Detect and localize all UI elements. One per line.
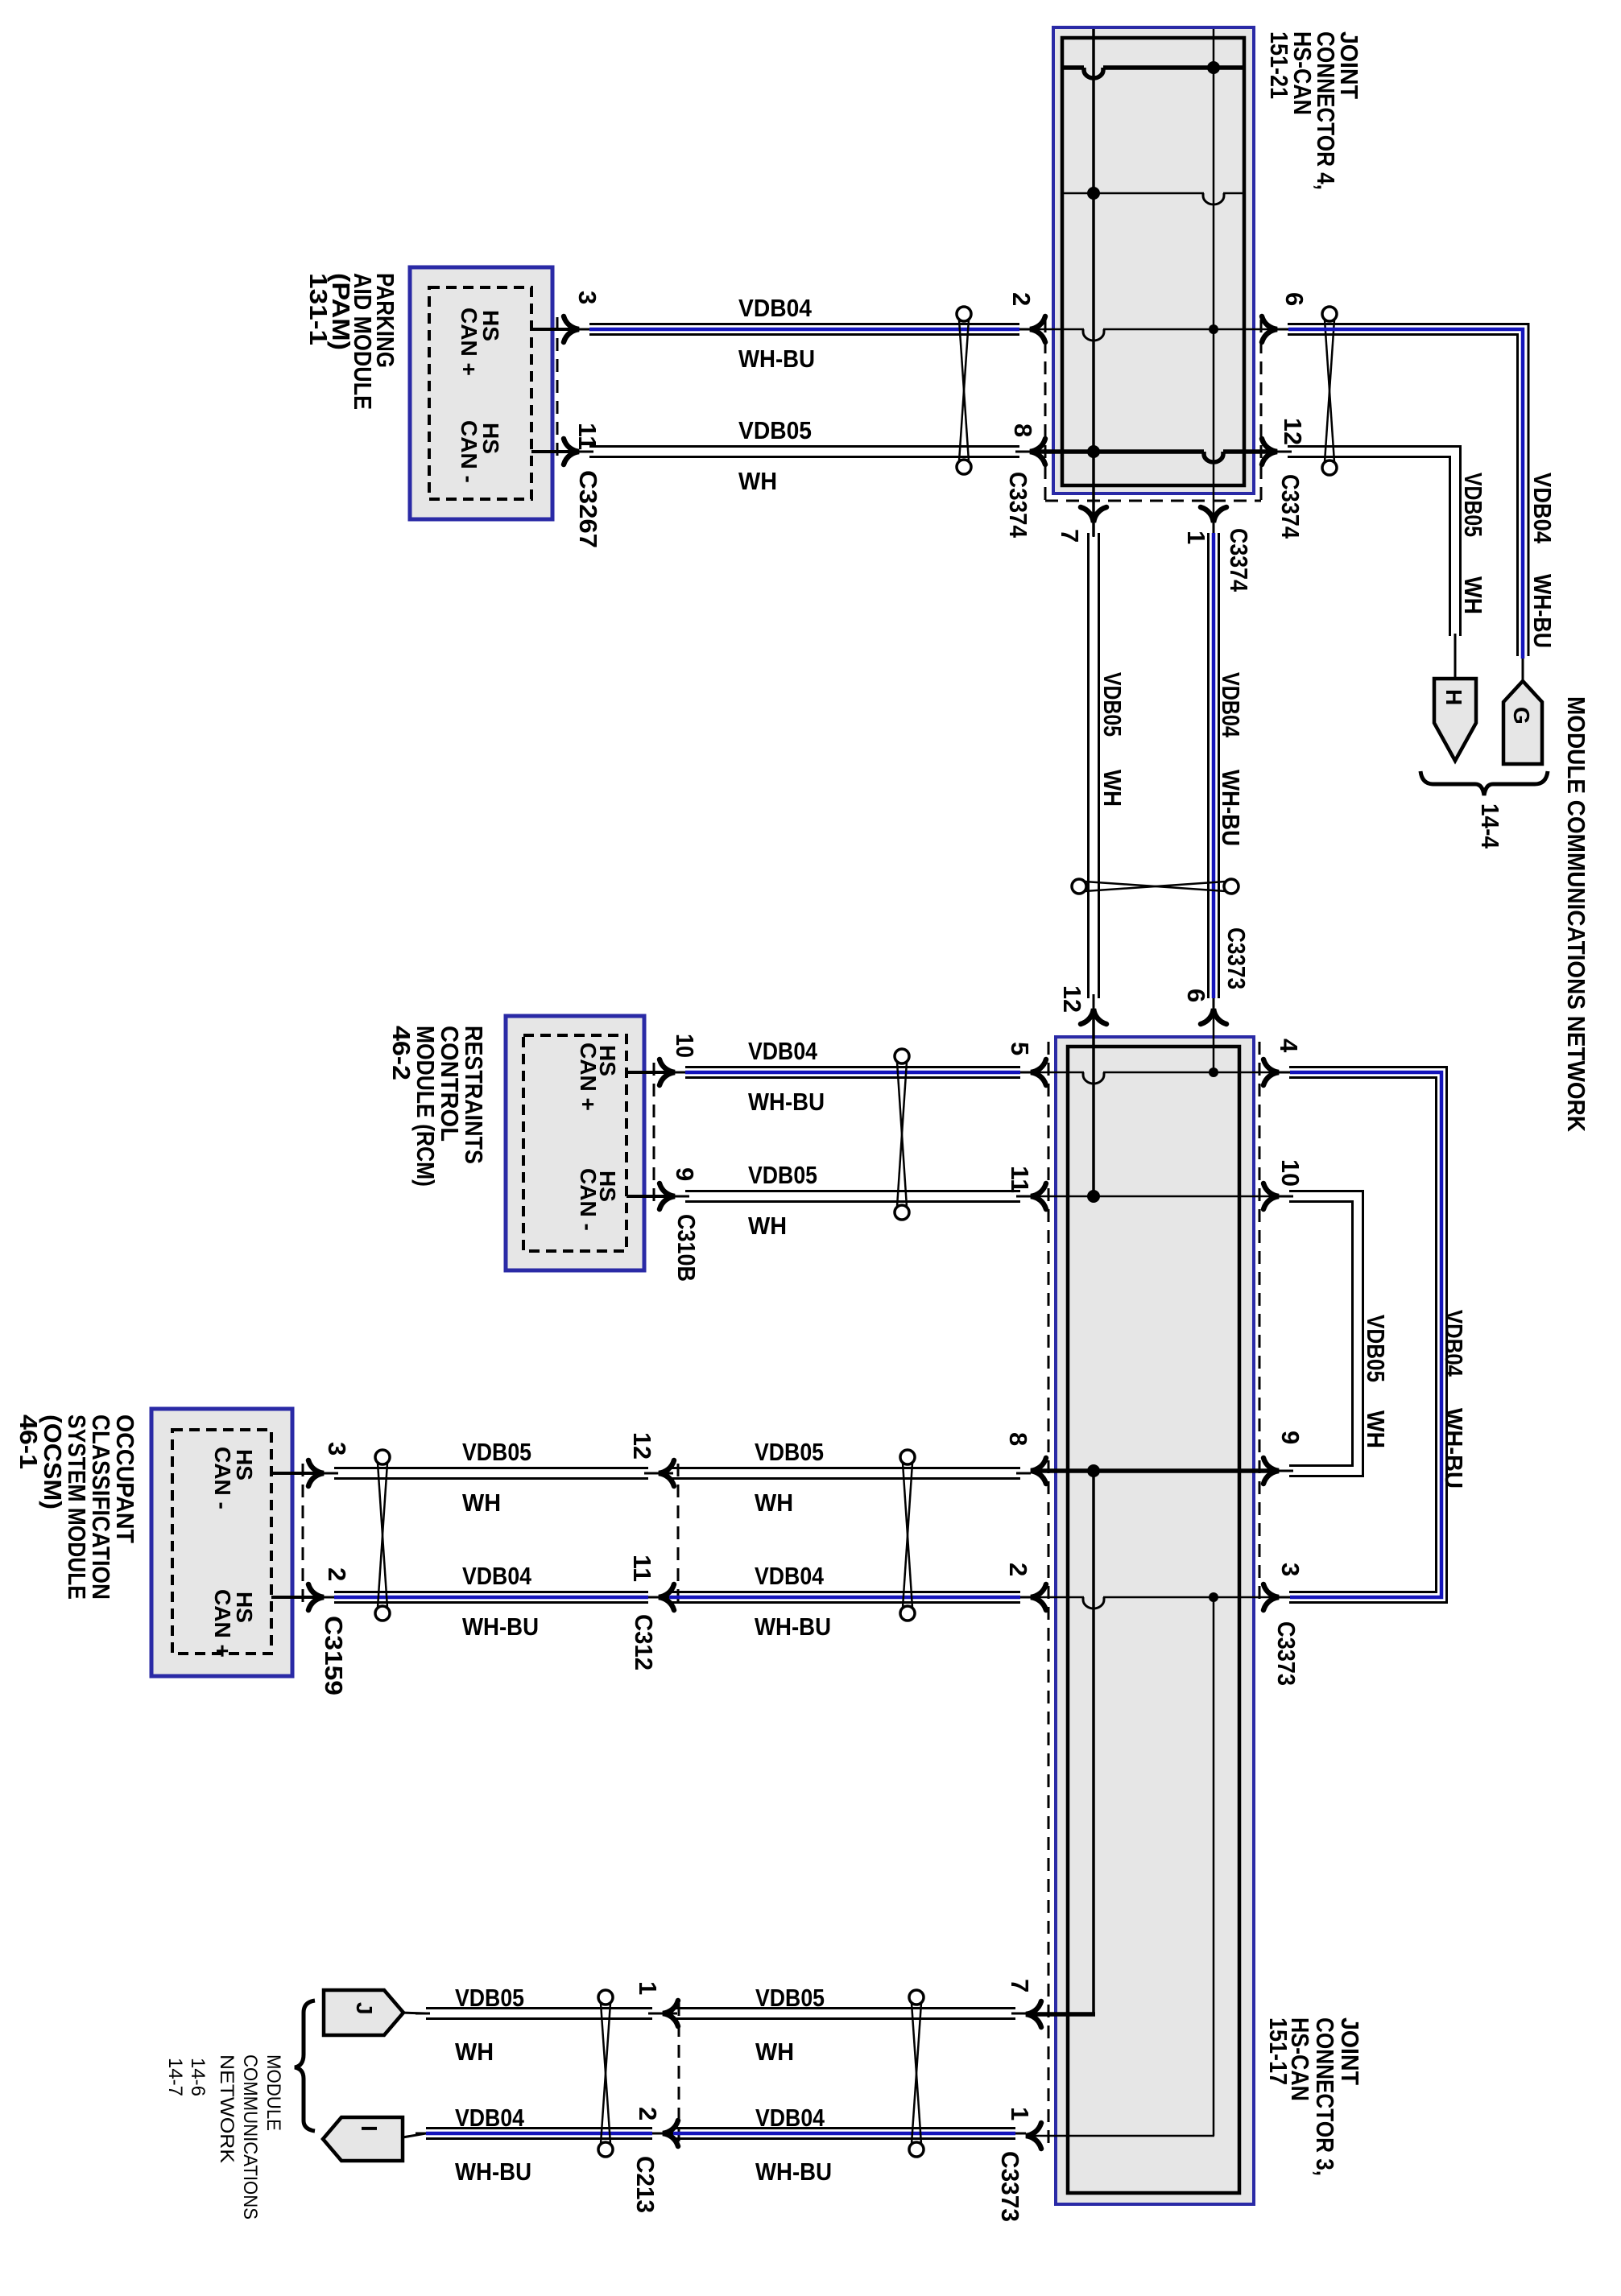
twisted pair symbol C213 run: [909, 1990, 924, 2157]
JC3 row pin5-pin4 (VDB04): [1031, 1072, 1279, 1084]
JC3 bus bar CAN- lower segment: [1092, 1471, 1095, 2014]
JC3 pin 4 label: [1275, 1039, 1303, 1053]
JC3 pin 7 label: [1006, 1979, 1034, 1992]
wire label WH-BU (G run): [1528, 574, 1557, 648]
JC4 row pin8-pin12 (VDB05, thick): [1030, 452, 1277, 462]
twisted pair symbol C312 run: [900, 1450, 915, 1621]
JC4 pin 1 label: [1182, 531, 1210, 544]
wire label VDB05 (C213 run): [755, 1984, 825, 2012]
OCSM label OCCUPANT CLASSIFICATION SYSTEM MODULE (OCSM) 46-1: [14, 1414, 139, 1600]
svg-text:1: 1: [1006, 2107, 1034, 2120]
wire label VDB05 (RCM run): [748, 1161, 817, 1189]
wire label WH (H run): [1459, 576, 1487, 614]
wire label VDB04 (OCSM run): [462, 1562, 532, 1590]
wire VDB04 WH-BU OCSM to C312: [324, 1592, 659, 1603]
PAM label PARKING AID MODULE (PAM) 131-1: [304, 273, 399, 410]
occupant classification system module OCSM box: [151, 1409, 292, 1676]
wire VDB05 WH PAM to JC4: [579, 447, 1030, 457]
C312 pin 12 arrow: [659, 1460, 674, 1486]
flag I (module communications network): [323, 2117, 403, 2161]
JC4 row A junction dot at CAN+ bus: [1207, 61, 1220, 74]
JC4 pin 12 arrow: [1262, 439, 1277, 465]
JC3 bus bar CAN- upper segment: [1092, 1009, 1095, 1196]
label MODULE COMMUNICATIONS NETWORK 14-6 14-7 (bottom left): [164, 2054, 284, 2220]
svg-text:14-7: 14-7: [164, 2058, 186, 2096]
RCM label RESTRAINTS CONTROL MODULE (RCM) 46-2: [387, 1026, 488, 1187]
svg-text:46-1: 46-1: [14, 1414, 43, 1469]
svg-text:WH-BU: WH-BU: [1528, 574, 1557, 648]
svg-text:WH: WH: [1098, 770, 1127, 807]
JC3 row pin7 stub (thick): [1026, 2012, 1095, 2017]
svg-text:CAN +: CAN +: [457, 308, 482, 376]
wire VDB05 WH flag J to C213: [416, 2009, 663, 2019]
wire label WH-BU (down run): [1217, 770, 1245, 846]
JC3 pin 3 arrow: [1263, 1584, 1279, 1610]
svg-text:9: 9: [671, 1167, 699, 1181]
OCSM connector C3159 dashed boundary: [302, 1464, 304, 1608]
JC3 row pin1 stub: [1026, 2135, 1214, 2137]
svg-text:9: 9: [1276, 1431, 1305, 1444]
svg-text:14-6: 14-6: [187, 2058, 209, 2096]
wire label WH (C312 run): [755, 1489, 793, 1517]
C213 pin 1 label: [634, 1981, 662, 1995]
svg-text:10: 10: [1276, 1159, 1305, 1187]
svg-text:C3374: C3374: [1225, 528, 1253, 593]
svg-text:VDB05: VDB05: [738, 416, 812, 444]
joint connector JC4 box (151-21): [1053, 27, 1254, 493]
svg-text:VDB04: VDB04: [1528, 473, 1557, 544]
label MODULE COMMUNICATIONS NETWORK (right): [1562, 696, 1590, 1133]
svg-text:VDB05: VDB05: [455, 1984, 524, 2012]
svg-text:CONNECTOR 3,: CONNECTOR 3,: [1311, 2017, 1339, 2176]
svg-text:C3374: C3374: [1276, 474, 1305, 539]
PAM pin 3 arrow: [564, 316, 579, 342]
svg-text:WH: WH: [755, 2038, 794, 2066]
wire label VDB05 (J run): [455, 1984, 524, 2012]
JC3 pin 5 label: [1006, 1042, 1034, 1055]
JC3 row pin11-pin10 (VDB05): [1031, 1195, 1279, 1198]
OCSM pin 3 stub: [271, 1472, 324, 1475]
twisted pair symbol J/I run: [598, 1990, 613, 2157]
svg-text:VDB04: VDB04: [755, 2104, 825, 2132]
svg-text:VDB04: VDB04: [748, 1037, 818, 1065]
wire label VDB05 (loop): [1362, 1315, 1390, 1382]
svg-text:VDB04: VDB04: [1217, 672, 1245, 738]
brace under flags G and H: [1420, 771, 1548, 795]
svg-text:11: 11: [1006, 1166, 1034, 1193]
JC3 pin 2 label: [1004, 1563, 1032, 1576]
svg-text:C3373: C3373: [1272, 1621, 1301, 1686]
wire label VDB05 (H run): [1459, 473, 1487, 537]
JC3 pin 9 arrow: [1263, 1458, 1279, 1484]
svg-text:C213: C213: [631, 2156, 660, 2213]
OCSM pin HS CAN+ text: [210, 1589, 257, 1658]
twisted pair symbol near JC4 pins 2/8: [957, 307, 971, 474]
flag J (module communications network): [324, 1990, 403, 2035]
JC4 pin 8 arrow: [1030, 439, 1045, 465]
wire label VDB04 (RCM run): [748, 1037, 818, 1065]
OCSM pin 2 arrow: [308, 1584, 324, 1610]
svg-text:12: 12: [628, 1432, 656, 1460]
JC3 pin5-4 junction dot at CAN+ bus: [1209, 1067, 1218, 1077]
twisted pair symbol OCSM run: [375, 1450, 390, 1621]
JC4 pin 12 label: [1279, 418, 1307, 445]
JC4 pin 7 label: [1056, 529, 1084, 543]
JC4 row A (jumper, thick): [1062, 68, 1243, 78]
wire VDB04 WH-BU loop JC3 pin4 to pin3: [1279, 1067, 1447, 1603]
wire label WH-BU (OCSM run): [462, 1613, 539, 1641]
wire label WH-BU (RCM run): [748, 1088, 825, 1116]
flag J letter: [352, 2002, 377, 2015]
svg-text:WH: WH: [748, 1212, 787, 1240]
JC3 connector C3373 bottom label: [996, 2151, 1024, 2222]
JC3 pin 7 arrow: [1026, 2001, 1041, 2027]
twisted pair symbol RCM run: [895, 1049, 909, 1220]
JC3 pin 11 arrow: [1031, 1183, 1046, 1209]
RCM pin 9 label: [671, 1167, 699, 1181]
svg-text:CAN -: CAN -: [576, 1168, 601, 1231]
svg-text:VDB05: VDB05: [748, 1161, 817, 1189]
svg-text:VDB04: VDB04: [755, 1562, 825, 1590]
svg-text:2: 2: [1004, 1563, 1032, 1576]
svg-text:WH: WH: [455, 2038, 494, 2066]
JC3 pin 8 label: [1004, 1432, 1032, 1446]
parking aid module PAM box: [410, 267, 552, 519]
PAM connector C3267 label: [574, 470, 602, 548]
OCSM pin 3 label: [323, 1442, 351, 1456]
PAM pin 3 label: [573, 291, 602, 304]
RCM pin 10 arrow: [660, 1059, 675, 1085]
JC4 label JOINT CONNECTOR 4, HS-CAN 151-21: [1265, 31, 1363, 190]
wire label WH (J run): [455, 2038, 494, 2066]
svg-text:14-4: 14-4: [1476, 803, 1504, 849]
svg-text:WH-BU: WH-BU: [1440, 1408, 1468, 1489]
RCM pin 9 stub: [626, 1195, 675, 1198]
JC3 pin 9 label: [1276, 1431, 1305, 1444]
PAM pin 11 arrow: [564, 439, 579, 465]
OCSM pin HS CAN- text: [210, 1447, 257, 1509]
JC4 row B junction dot at CAN- bus: [1087, 187, 1100, 200]
joint connector JC3 box (151-17): [1056, 1037, 1254, 2204]
svg-text:3: 3: [573, 291, 602, 304]
JC3 pin8-9 junction dot at CAN- bus: [1087, 1464, 1100, 1477]
C213 pin 2 label: [634, 2107, 662, 2120]
svg-text:11: 11: [628, 1555, 656, 1582]
svg-text:WH-BU: WH-BU: [462, 1613, 539, 1641]
C213 pin 1 arrow: [663, 2001, 678, 2026]
wire label VDB05 (OCSM run): [462, 1438, 531, 1466]
svg-text:8: 8: [1009, 423, 1037, 437]
svg-text:VDB04: VDB04: [462, 1562, 532, 1590]
svg-text:WH-BU: WH-BU: [455, 2158, 531, 2186]
wire VDB05 WH JC4 pin7 down to JC3 pin12: [1089, 522, 1099, 1009]
svg-text:C3159: C3159: [320, 1616, 348, 1695]
JC3 row pin8-pin9 (VDB05, thick): [1031, 1468, 1279, 1473]
wire label VDB04 (loop): [1440, 1310, 1468, 1377]
wire VDB05 WH OCSM to C312: [324, 1468, 659, 1479]
svg-text:WH-BU: WH-BU: [755, 2158, 832, 2186]
svg-text:WH: WH: [1459, 576, 1487, 614]
JC4 connector C3374 dashed boundary: [1045, 320, 1261, 501]
JC3 connector C3373 right label: [1272, 1621, 1301, 1686]
C213 dashed boundary: [678, 2003, 680, 2145]
wire label VDB04 (C312 run): [755, 1562, 825, 1590]
svg-text:VDB04: VDB04: [738, 294, 813, 322]
svg-text:131-1: 131-1: [304, 273, 333, 345]
svg-text:CAN -: CAN -: [210, 1447, 235, 1509]
JC4 pin8-12 junction dot at CAN- bus: [1087, 445, 1100, 458]
OCSM pin 2 label: [323, 1567, 351, 1581]
JC3 pin 6 entry arrow: [1201, 1009, 1226, 1024]
svg-text:WH-BU: WH-BU: [1217, 770, 1245, 846]
brace left of flags J and I: [295, 2001, 315, 2131]
JC3 pin 11 label: [1006, 1166, 1034, 1193]
wire VDB04 WH-BU RCM to JC3: [675, 1067, 1031, 1078]
C312 connector label: [630, 1614, 658, 1670]
wire VDB04 WH-BU flag I to C213: [416, 2129, 663, 2139]
JC4 pin 7 exit arrow: [1081, 507, 1106, 522]
JC3 pin2-3 junction dot at CAN+ bus: [1209, 1592, 1218, 1602]
svg-text:WH-BU: WH-BU: [748, 1088, 825, 1116]
JC4 row B (jumper, thin): [1062, 193, 1243, 204]
flag I letter: [357, 2125, 382, 2132]
svg-text:6: 6: [1182, 989, 1210, 1002]
flag H letter: [1441, 689, 1466, 705]
twisted pair symbol between JC4 and JC3: [1072, 879, 1238, 894]
svg-text:C310B: C310B: [672, 1214, 701, 1282]
svg-text:VDB05: VDB05: [1459, 473, 1487, 537]
PAM pin HS CAN+ text: [457, 308, 503, 376]
flag I wire stub: [403, 2133, 426, 2137]
flag G (module communications network): [1503, 681, 1542, 764]
JC4 connector C3374 right label: [1276, 474, 1305, 539]
svg-text:CAN +: CAN +: [210, 1589, 235, 1658]
wire label WH-BU (PAM run): [738, 345, 815, 373]
JC4 pin 2 label: [1007, 292, 1036, 306]
svg-text:1: 1: [1182, 531, 1210, 544]
wire label VDB04 (I run): [455, 2104, 525, 2132]
svg-text:2: 2: [323, 1567, 351, 1581]
JC3 pin 12 label: [1058, 985, 1086, 1013]
svg-text:10: 10: [671, 1034, 699, 1058]
wire VDB04 WH-BU PAM to JC4: [579, 324, 1030, 335]
JC3 bus bar CAN+ upper segment: [1213, 1009, 1215, 1072]
JC4 pin 6 label: [1280, 292, 1309, 306]
svg-text:C3374: C3374: [1004, 472, 1032, 539]
svg-text:VDB05: VDB05: [462, 1438, 531, 1466]
flag G letter: [1509, 707, 1534, 725]
PAM pin HS CAN- text: [457, 420, 503, 483]
svg-text:WH: WH: [1362, 1410, 1390, 1448]
wire label WH (RCM run): [748, 1212, 787, 1240]
svg-text:COMMUNICATIONS: COMMUNICATIONS: [239, 2054, 261, 2220]
svg-text:6: 6: [1280, 292, 1309, 306]
OCSM connector C3159 label: [320, 1616, 348, 1695]
wire VDB05 WH JC4 pin12 to flag H: [1277, 447, 1461, 679]
JC3 pin 8 arrow: [1031, 1458, 1046, 1484]
wire label VDB05 (C312 run): [755, 1438, 824, 1466]
svg-text:G: G: [1509, 707, 1534, 725]
svg-text:VDB04: VDB04: [455, 2104, 525, 2132]
svg-text:2: 2: [1007, 292, 1036, 306]
twisted pair symbol right of JC4 pins 6/12: [1322, 307, 1337, 475]
RCM connector C310B dashed boundary: [653, 1063, 655, 1208]
svg-text:VDB05: VDB05: [755, 1984, 825, 2012]
svg-text:CAN +: CAN +: [576, 1043, 601, 1111]
connector C3373 mid label: [1222, 927, 1251, 989]
JC3 pin 4 arrow: [1263, 1059, 1279, 1085]
JC3 bus bar CAN+ lower segment: [1213, 1597, 1215, 2136]
flag J wire stub: [401, 2013, 426, 2013]
PAM pin 11 label: [573, 423, 602, 450]
C312 pin 12 label: [628, 1432, 656, 1460]
JC3 pin 10 arrow: [1263, 1183, 1279, 1209]
svg-text:VDB05: VDB05: [755, 1438, 824, 1466]
wire label VDB05 (PAM run): [738, 416, 812, 444]
JC3 pin 1 label: [1006, 2107, 1034, 2120]
JC4 pin 6 arrow: [1262, 316, 1277, 342]
restraints control module RCM box: [506, 1016, 644, 1270]
wire VDB05 WH C312 to JC3 pin8: [659, 1468, 1031, 1479]
C312 dashed boundary: [677, 1464, 680, 1608]
svg-text:VDB04: VDB04: [1440, 1310, 1468, 1377]
PAM pin 11 stub: [531, 450, 579, 453]
svg-text:12: 12: [1058, 985, 1086, 1013]
JC4 connector C3374 left label: [1004, 472, 1032, 539]
JC3 pin 3 label: [1276, 1563, 1305, 1576]
JC3 pin 5 arrow: [1031, 1059, 1046, 1085]
C213 connector label: [631, 2156, 660, 2213]
JC4 bus bar CAN+ (VDB04): [1213, 29, 1215, 536]
wire label VDB04 (PAM run): [738, 294, 813, 322]
svg-text:12: 12: [1279, 418, 1307, 445]
flag H (module communications network): [1434, 679, 1476, 761]
wire label WH (down run): [1098, 770, 1127, 807]
RCM connector C310B label: [672, 1214, 701, 1282]
JC3 pin 10 label: [1276, 1159, 1305, 1187]
svg-text:7: 7: [1006, 1979, 1034, 1992]
JC4 pin 2 arrow: [1030, 316, 1045, 342]
svg-text:NETWORK: NETWORK: [216, 2054, 238, 2163]
JC3 pin 1 arrow: [1026, 2123, 1041, 2149]
wire label VDB05 (down run): [1098, 672, 1127, 737]
wire label WH-BU (I run): [455, 2158, 531, 2186]
svg-text:46-2: 46-2: [387, 1026, 416, 1080]
JC4 pin 8 label: [1009, 423, 1037, 437]
wire label WH-BU (C312 run): [755, 1613, 831, 1641]
svg-text:C312: C312: [630, 1614, 658, 1670]
wire VDB04 WH-BU JC4 pin1 down to JC3 pin6: [1209, 522, 1219, 1009]
svg-text:5: 5: [1006, 1042, 1034, 1055]
svg-text:3: 3: [323, 1442, 351, 1456]
JC4 connector C3374 bottom label: [1225, 528, 1253, 593]
svg-text:3: 3: [1276, 1563, 1305, 1576]
wire label VDB04 (down run): [1217, 672, 1245, 738]
JC3 pin 6 label: [1182, 989, 1210, 1002]
RCM pin 9 arrow: [660, 1183, 675, 1209]
wire VDB04 WH-BU C312 to JC3 pin2: [659, 1592, 1031, 1603]
wire label WH (loop): [1362, 1410, 1390, 1448]
wire label WH (C213 run): [755, 2038, 794, 2066]
svg-text:WH: WH: [755, 1489, 793, 1517]
C312 pin 11 label: [628, 1555, 656, 1582]
svg-text:VDB05: VDB05: [1362, 1315, 1390, 1382]
C213 pin 2 arrow: [663, 2120, 678, 2146]
svg-text:WH-BU: WH-BU: [738, 345, 815, 373]
JC3 pin11-10 junction dot at CAN- bus: [1087, 1190, 1100, 1203]
svg-text:4: 4: [1275, 1039, 1303, 1053]
JC3 connector C3373 dashed boundary: [1048, 1042, 1259, 2143]
svg-text:CAN -: CAN -: [457, 420, 482, 483]
wire label VDB04 (G run): [1528, 473, 1557, 544]
svg-text:H: H: [1441, 689, 1466, 705]
PAM pin 3 stub: [531, 328, 579, 331]
svg-text:C3373: C3373: [996, 2151, 1024, 2222]
svg-text:WH: WH: [738, 467, 777, 495]
svg-text:WH: WH: [462, 1489, 501, 1517]
wire VDB05 WH C213 to JC3 pin7: [663, 2009, 1026, 2019]
svg-text:151-17: 151-17: [1264, 2017, 1292, 2085]
RCM pin 10 stub: [626, 1071, 675, 1074]
JC4 row pin2-pin6 (VDB04): [1030, 329, 1277, 341]
JC4 bus bar CAN- (VDB05): [1092, 29, 1095, 536]
svg-text:8: 8: [1004, 1432, 1032, 1446]
OCSM pin 2 stub: [271, 1596, 324, 1599]
svg-text:C3267: C3267: [574, 470, 602, 548]
svg-text:1: 1: [634, 1981, 662, 1995]
svg-text:2: 2: [634, 2107, 662, 2120]
wire label VDB04 (C213 run): [755, 2104, 825, 2132]
svg-text:C3373: C3373: [1222, 927, 1251, 989]
OCSM pin 3 arrow: [308, 1460, 324, 1486]
wire label WH (OCSM run): [462, 1489, 501, 1517]
JC3 label JOINT CONNECTOR 3, HS-CAN 151-17: [1264, 2017, 1364, 2176]
svg-text:MODULE COMMUNICATIONS NETWORK: MODULE COMMUNICATIONS NETWORK: [1562, 696, 1590, 1133]
JC4 pin2-6 junction dot at CAN+ bus: [1209, 324, 1218, 334]
wire VDB05 WH RCM to JC3: [675, 1191, 1031, 1202]
JC4 pin 1 exit arrow: [1201, 507, 1226, 522]
label 14-4: [1476, 803, 1504, 849]
wire VDB05 WH loop JC3 pin10 to pin9: [1279, 1191, 1363, 1476]
wire VDB04 WH-BU C213 to JC3 pin1: [663, 2129, 1026, 2139]
svg-text:151-21: 151-21: [1265, 31, 1293, 99]
svg-text:VDB05: VDB05: [1098, 672, 1127, 737]
RCM pin HS CAN- text: [576, 1168, 620, 1231]
RCM pin 10 label: [671, 1034, 699, 1058]
wire VDB04 WH-BU JC4 pin6 to flag G: [1277, 324, 1528, 682]
JC3 pin 2 arrow: [1031, 1584, 1046, 1610]
svg-text:J: J: [352, 2002, 377, 2015]
RCM pin HS CAN+ text: [576, 1043, 620, 1111]
svg-text:MODULE: MODULE: [263, 2054, 284, 2131]
JC3 row pin2-pin3 (VDB04): [1031, 1597, 1279, 1608]
svg-text:7: 7: [1056, 529, 1084, 543]
C312 pin 11 arrow: [659, 1584, 674, 1610]
wire label WH (PAM run): [738, 467, 777, 495]
svg-text:WH-BU: WH-BU: [755, 1613, 831, 1641]
svg-text:I: I: [357, 2125, 382, 2132]
wire label WH-BU (loop): [1440, 1408, 1468, 1489]
svg-text:JOINT: JOINT: [1336, 2017, 1364, 2085]
JC3 pin 12 entry arrow: [1081, 1009, 1106, 1024]
wire label WH-BU (C213 run): [755, 2158, 832, 2186]
PAM connector C3267 dashed boundary: [556, 317, 559, 463]
